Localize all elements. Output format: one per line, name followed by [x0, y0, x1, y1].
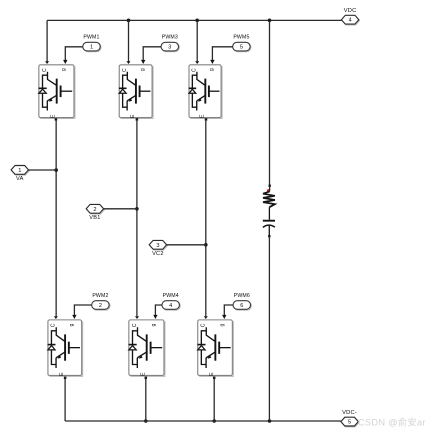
port RC bottom square — [268, 235, 270, 237]
port U6.E square — [213, 377, 216, 380]
svg-text:CSDN @俞安ar: CSDN @俞安ar — [358, 417, 426, 428]
svg-text:C: C — [132, 323, 138, 327]
svg-text:PWM4: PWM4 — [163, 293, 179, 299]
wire U4.E to bottom bus — [145, 379, 147, 421]
wire VA to leg A — [29, 169, 57, 171]
wire C to bottom square — [268, 226, 270, 235]
svg-text:PWM2: PWM2 — [92, 293, 108, 299]
wire RC bottom to bus — [268, 237, 270, 421]
svg-text:1: 1 — [18, 168, 21, 174]
wire U6.E to bottom bus — [213, 379, 215, 421]
wire bus to RC top — [269, 20, 271, 184]
svg-text:E: E — [209, 372, 215, 376]
wire PWM2 to gate — [72, 305, 91, 319]
port U1.E square — [55, 118, 58, 121]
port VC2 (3) — [149, 240, 167, 257]
svg-text:VA: VA — [16, 176, 24, 182]
port VDC (4) — [341, 8, 359, 25]
node junction VA — [54, 168, 58, 172]
svg-text:5: 5 — [240, 45, 243, 51]
inport PWM6 — [233, 293, 251, 310]
node red marker — [267, 189, 270, 192]
node junction top bus / U5 — [195, 19, 199, 23]
svg-text:g: g — [151, 323, 157, 326]
inport PWM5 — [233, 35, 251, 52]
svg-text:1: 1 — [90, 45, 93, 51]
igbt U3 (IGBT/Diode) — [119, 65, 153, 119]
wire PWM3 to gate — [141, 47, 161, 64]
port U5.E square — [205, 118, 208, 121]
svg-text:g: g — [140, 68, 146, 71]
svg-text:6: 6 — [240, 303, 243, 309]
svg-text:VC2: VC2 — [152, 251, 164, 257]
watermark CSDN — [358, 417, 426, 428]
wire bottom DC- bus — [65, 420, 341, 422]
port U3.E square — [136, 118, 139, 121]
svg-text:VDC: VDC — [344, 8, 357, 14]
wire phase A leg — [54, 121, 58, 319]
port VDC- (5) — [341, 410, 359, 427]
node junction top bus / RC branch — [268, 19, 272, 23]
inport PWM4 — [162, 293, 180, 310]
wire R to C — [268, 207, 270, 220]
node junction bottom bus / U6 — [212, 419, 216, 423]
wire top DC+ bus — [47, 19, 341, 21]
wire phase C leg — [204, 121, 208, 319]
svg-text:2: 2 — [93, 207, 96, 213]
svg-text:C: C — [42, 68, 48, 72]
wire RC top stub — [269, 187, 271, 192]
svg-text:E: E — [141, 372, 147, 376]
inport PWM3 — [161, 35, 179, 52]
svg-text:E: E — [51, 114, 57, 118]
svg-text:C: C — [191, 68, 197, 72]
node junction top bus / U3 — [127, 19, 131, 23]
wire VB1 to leg B — [104, 208, 137, 210]
port U4.E square — [145, 377, 148, 380]
inport PWM1 — [83, 35, 101, 52]
resistor R (zigzag) — [263, 191, 275, 207]
capacitor C plate top — [263, 220, 275, 222]
svg-text:PWM3: PWM3 — [162, 35, 178, 41]
wire drop bus to U1 C — [45, 20, 49, 64]
inport PWM2 — [92, 293, 110, 310]
port U2.E square — [64, 377, 67, 380]
capacitor C plate bottom (curved) — [263, 225, 275, 227]
svg-text:g: g — [61, 68, 67, 71]
svg-text:PWM1: PWM1 — [83, 35, 99, 41]
svg-text:3: 3 — [168, 45, 171, 51]
port RC top square — [269, 185, 271, 187]
svg-text:C: C — [122, 68, 128, 72]
svg-text:E: E — [59, 372, 65, 376]
wire PWM6 to gate — [222, 305, 233, 319]
svg-text:4: 4 — [349, 18, 352, 24]
node junction VC2 — [204, 243, 208, 247]
svg-text:3: 3 — [156, 243, 159, 249]
node junction bottom bus / U4 — [144, 419, 148, 423]
svg-text:C: C — [201, 323, 207, 327]
svg-text:4: 4 — [169, 303, 172, 309]
svg-text:PWM5: PWM5 — [233, 35, 249, 41]
svg-text:5: 5 — [348, 420, 351, 426]
wire VC2 to leg C — [167, 244, 206, 246]
svg-text:g: g — [209, 68, 215, 71]
node junction bottom bus / RC branch — [268, 419, 272, 423]
svg-text:E: E — [199, 114, 205, 118]
igbt U1 (IGBT/Diode) — [39, 65, 75, 119]
port VA (1) — [11, 166, 29, 183]
igbt U6 (IGBT/Diode) — [197, 320, 233, 376]
svg-text:2: 2 — [99, 303, 102, 309]
wire PWM4 to gate — [153, 305, 162, 319]
igbt U5 (IGBT/Diode) — [189, 65, 222, 119]
wire U2.E to bottom bus — [64, 379, 66, 421]
node junction VB1 — [135, 207, 139, 211]
svg-text:PWM6: PWM6 — [234, 293, 250, 299]
svg-text:VB1: VB1 — [89, 215, 100, 221]
wire drop bus to U5 C — [195, 20, 199, 64]
igbt U4 (IGBT/Diode) — [129, 320, 165, 376]
svg-text:E: E — [130, 114, 136, 118]
port VB1 (2) — [86, 204, 104, 221]
svg-text:VDC-: VDC- — [342, 410, 357, 416]
svg-text:g: g — [69, 323, 75, 326]
svg-text:C: C — [51, 323, 57, 327]
wire PWM5 to gate — [210, 47, 232, 64]
wire phase B leg — [135, 121, 139, 319]
wire drop bus to U3 C — [127, 20, 131, 64]
svg-text:g: g — [220, 323, 226, 326]
igbt U2 (IGBT/Diode) — [48, 320, 83, 376]
wire PWM1 to gate — [63, 47, 83, 64]
